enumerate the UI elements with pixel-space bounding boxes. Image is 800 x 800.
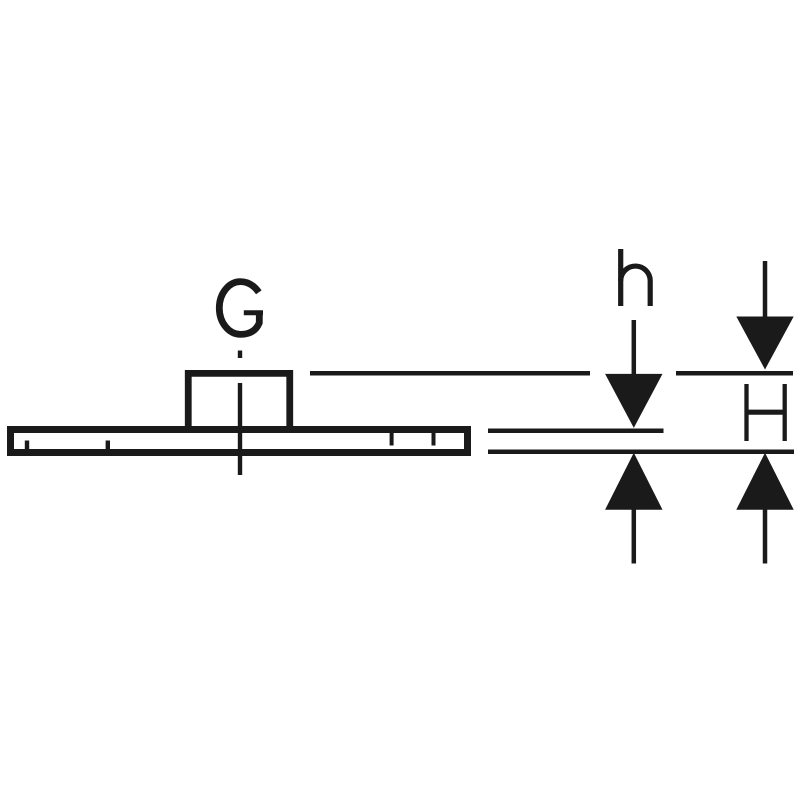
ext line plate-top	[488, 429, 664, 434]
label h	[621, 249, 651, 306]
dim line boss-top right segment	[676, 371, 793, 376]
label G	[219, 282, 263, 335]
boss G	[188, 373, 290, 433]
h down arrow shaft	[632, 320, 637, 375]
dim line boss-top left segment	[310, 371, 590, 376]
centerline dash	[238, 351, 242, 359]
centerline	[238, 383, 242, 475]
H up arrow shaft	[763, 509, 768, 564]
h down arrow head	[605, 374, 662, 428]
tick left 1	[25, 441, 29, 450]
plate profile	[11, 430, 468, 453]
H down arrow shaft	[763, 261, 768, 318]
h up arrow head	[605, 453, 662, 510]
H up arrow head	[736, 453, 793, 510]
h up arrow shaft	[632, 509, 637, 564]
ext line plate-bottom	[488, 449, 794, 454]
label H	[745, 384, 786, 441]
H down arrow head	[736, 317, 793, 370]
tick right 1	[390, 432, 394, 445]
tick right 2	[432, 432, 436, 445]
tick left 2	[106, 441, 110, 450]
